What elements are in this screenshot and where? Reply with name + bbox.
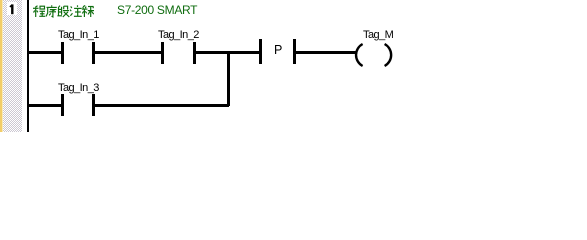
contact P (positive edge) — [259, 39, 262, 64]
注 — [70, 5, 82, 16]
contact Tag_In_3 — [58, 83, 99, 94]
comment text S7-200 SMART — [117, 4, 197, 16]
branch wire rail to Tag_In_3 — [29, 104, 61, 107]
释 — [82, 5, 94, 17]
branch wire Tag_In_3 to junction — [95, 104, 229, 107]
yellow selection strip — [0, 0, 2, 132]
段 — [57, 5, 69, 16]
contact Tag_In_2 — [158, 30, 199, 41]
network comment 程序段注释 (hand-drawn CJK) — [33, 5, 94, 19]
network number 1 — [7, 2, 17, 15]
序 — [46, 5, 57, 17]
程 — [33, 5, 45, 16]
wire Tag_In_2 to P contact — [196, 51, 259, 54]
coil Tag_M — [363, 30, 393, 41]
left power rail — [27, 0, 29, 132]
network gutter dithered background — [0, 0, 22, 132]
contact Tag_In_1 — [58, 30, 99, 41]
wire rail to Tag_In_1 — [29, 51, 61, 54]
junction vertical to branch — [227, 51, 230, 106]
wire P contact to coil — [296, 51, 356, 54]
wire Tag_In_1 to Tag_In_2 — [95, 51, 161, 54]
